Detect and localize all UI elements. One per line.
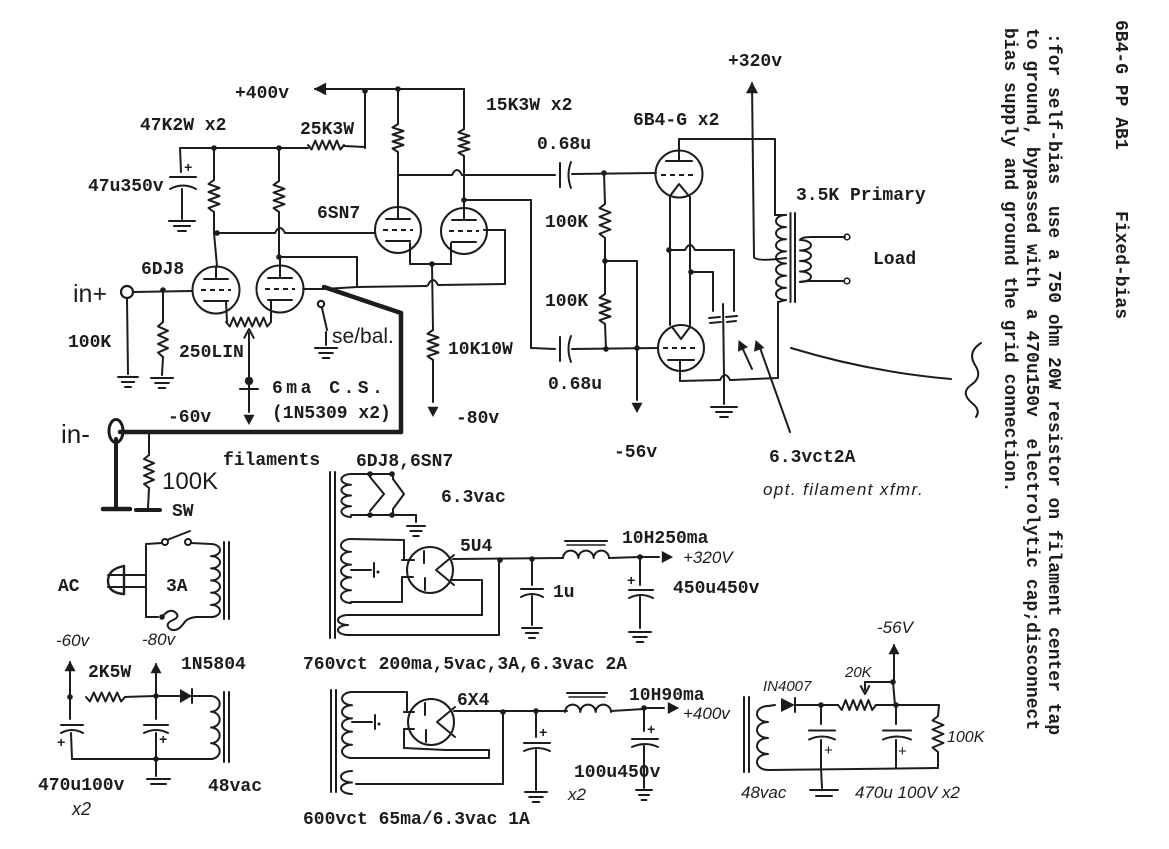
svg-text:100K: 100K xyxy=(545,213,588,233)
svg-text:48vac: 48vac xyxy=(741,783,787,802)
svg-text:600vct 65ma/6.3vac 1A: 600vct 65ma/6.3vac 1A xyxy=(303,810,530,830)
svg-text:+: + xyxy=(647,723,655,739)
svg-text:6.3vac: 6.3vac xyxy=(441,488,506,508)
svg-text:47u350v: 47u350v xyxy=(88,177,164,197)
svg-text:+: + xyxy=(57,736,65,752)
svg-text:x2: x2 xyxy=(71,799,91,819)
svg-text:+320V: +320V xyxy=(683,548,734,567)
svg-text:2K5W: 2K5W xyxy=(88,663,131,683)
svg-text:-80v: -80v xyxy=(456,409,499,429)
svg-text:3.5K Primary: 3.5K Primary xyxy=(796,186,926,206)
svg-text:6X4: 6X4 xyxy=(457,691,490,711)
svg-text:450u450v: 450u450v xyxy=(673,579,760,599)
svg-text::for self-bias use a 750 ohm: :for self-bias use a 750 ohm 20W resisto… xyxy=(1043,33,1063,735)
svg-text:+400v: +400v xyxy=(235,84,289,104)
svg-text:100K: 100K xyxy=(947,729,986,746)
svg-text:47K2W x2: 47K2W x2 xyxy=(140,116,226,136)
svg-text:10K10W: 10K10W xyxy=(448,340,513,360)
svg-text:20K: 20K xyxy=(844,664,873,681)
svg-text:3A: 3A xyxy=(166,577,188,597)
svg-text:+: + xyxy=(898,743,907,760)
svg-text:470u100v: 470u100v xyxy=(38,776,125,796)
svg-text:6SN7: 6SN7 xyxy=(317,204,360,224)
svg-text:470u 100V x2: 470u 100V x2 xyxy=(855,783,960,802)
svg-text:10H250ma: 10H250ma xyxy=(622,529,709,549)
svg-text:6DJ8: 6DJ8 xyxy=(141,260,184,280)
svg-text:1N5804: 1N5804 xyxy=(181,655,246,675)
svg-text:6ma C.S.: 6ma C.S. xyxy=(272,379,386,399)
svg-text:250LIN: 250LIN xyxy=(179,343,244,363)
svg-text:+: + xyxy=(159,733,167,749)
svg-text:100K: 100K xyxy=(545,292,588,312)
svg-text:-80v: -80v xyxy=(142,630,177,649)
svg-text:48vac: 48vac xyxy=(208,777,262,797)
svg-text:-60v: -60v xyxy=(56,631,91,650)
svg-text:SW: SW xyxy=(172,502,194,522)
svg-text:100K: 100K xyxy=(162,468,218,495)
svg-text:-56V: -56V xyxy=(877,618,915,637)
svg-text:0.68u: 0.68u xyxy=(548,375,602,395)
svg-text:to ground, bypassed with a 47: to ground, bypassed with a 470u150v elec… xyxy=(1021,28,1041,730)
svg-text:IN4007: IN4007 xyxy=(763,678,812,695)
svg-text:x2: x2 xyxy=(567,785,587,804)
svg-text:+400v: +400v xyxy=(683,704,731,723)
svg-text:(1N5309 x2): (1N5309 x2) xyxy=(272,404,391,424)
svg-text:6B4-G x2: 6B4-G x2 xyxy=(633,111,719,131)
svg-text:1u: 1u xyxy=(553,583,575,603)
svg-text:filaments: filaments xyxy=(223,451,320,471)
svg-text:Fixed-bias: Fixed-bias xyxy=(1110,211,1130,319)
svg-text:6DJ8,6SN7: 6DJ8,6SN7 xyxy=(356,452,453,472)
svg-text:+320v: +320v xyxy=(728,52,782,72)
svg-text:10H90ma: 10H90ma xyxy=(629,686,705,706)
svg-text:opt. filament xfmr.: opt. filament xfmr. xyxy=(763,480,924,499)
svg-text:AC: AC xyxy=(58,577,80,597)
svg-text:6.3vct2A: 6.3vct2A xyxy=(769,448,856,468)
svg-text:5U4: 5U4 xyxy=(460,537,493,557)
svg-text:-60v: -60v xyxy=(168,408,211,428)
svg-text:6B4-G PP AB1: 6B4-G PP AB1 xyxy=(1110,20,1130,150)
svg-text:in-: in- xyxy=(61,419,90,449)
svg-text:100K: 100K xyxy=(68,333,111,353)
svg-text:in+: in+ xyxy=(73,280,107,308)
svg-text:+: + xyxy=(184,161,192,177)
svg-text:Load: Load xyxy=(873,250,916,270)
svg-text:+: + xyxy=(824,742,833,759)
svg-text:25K3W: 25K3W xyxy=(300,120,354,140)
svg-text:+: + xyxy=(627,574,635,590)
svg-text:se/bal.: se/bal. xyxy=(332,325,394,348)
svg-text:-56v: -56v xyxy=(614,443,657,463)
svg-text:bias supply and ground the gri: bias supply and ground the grid connecti… xyxy=(999,28,1019,492)
svg-text:+: + xyxy=(539,726,547,742)
svg-text:15K3W x2: 15K3W x2 xyxy=(486,96,572,116)
svg-text:100u450v: 100u450v xyxy=(574,763,661,783)
svg-text:760vct 200ma,5vac,3A,6.3vac 2A: 760vct 200ma,5vac,3A,6.3vac 2A xyxy=(303,655,627,675)
svg-text:0.68u: 0.68u xyxy=(537,135,591,155)
